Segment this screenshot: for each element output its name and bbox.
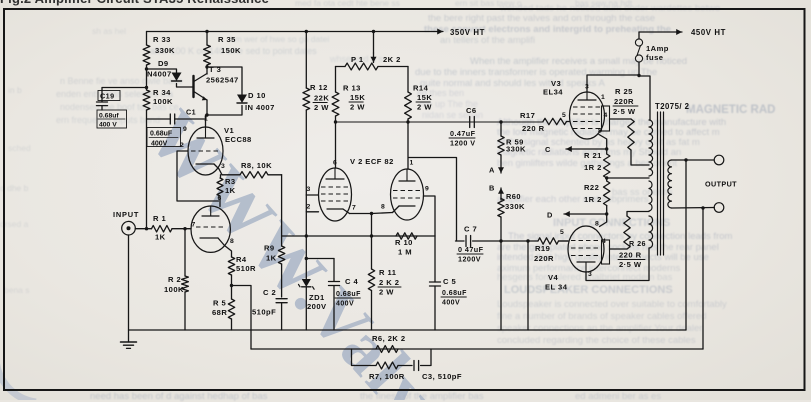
svg-text:C1: C1 — [186, 108, 196, 117]
capacitor C3 — [413, 361, 415, 371]
svg-text:220 R: 220 R — [619, 251, 642, 260]
svg-text:1200V: 1200V — [458, 255, 481, 264]
svg-text:1: 1 — [204, 116, 208, 123]
svg-text:1 M: 1 M — [398, 248, 412, 257]
wire feedback from secondary — [701, 206, 704, 209]
svg-text:R 33: R 33 — [153, 35, 171, 44]
svg-text:2: 2 — [180, 142, 184, 149]
svg-text:C 4: C 4 — [345, 277, 358, 286]
svg-text:330K: 330K — [155, 46, 175, 55]
svg-text:C 2: C 2 — [263, 288, 276, 297]
svg-text:0.68uF: 0.68uF — [336, 291, 361, 298]
zener diode ZD1 — [306, 258, 334, 260]
svg-text:R4: R4 — [236, 255, 247, 264]
svg-text:6: 6 — [333, 160, 337, 167]
node 350V HT arrow — [434, 31, 443, 33]
svg-text:2K 2: 2K 2 — [383, 55, 401, 64]
svg-text:1200 V: 1200 V — [450, 139, 475, 148]
svg-text:EL34: EL34 — [543, 88, 563, 97]
capacitor C2 — [276, 298, 287, 300]
wire V1 grid loop pin2 — [177, 151, 219, 201]
svg-text:EL 34: EL 34 — [545, 283, 568, 292]
svg-text:0 47uF: 0 47uF — [458, 245, 484, 254]
resistor R17 — [543, 118, 567, 124]
svg-text:400V: 400V — [151, 140, 168, 147]
resistor R9 — [281, 175, 283, 246]
svg-text:2 W: 2 W — [379, 288, 394, 297]
capacitor C1 — [147, 118, 171, 120]
wire grid bias rail — [282, 235, 435, 237]
svg-text:3: 3 — [221, 163, 225, 170]
svg-text:330K: 330K — [506, 145, 526, 154]
svg-text:R 5: R 5 — [213, 299, 226, 308]
svg-text:R 2: R 2 — [168, 275, 181, 284]
svg-text:8: 8 — [381, 204, 385, 211]
wire centre tap — [605, 176, 608, 179]
svg-text:220 R: 220 R — [522, 124, 545, 133]
wire anode coupling rail — [336, 121, 544, 123]
wire 350V HT rail — [147, 31, 435, 33]
svg-text:IN 4007: IN 4007 — [245, 103, 275, 112]
wire V4 grid pin5 — [559, 240, 569, 242]
wire R60 to ground bus — [499, 239, 502, 242]
diode D9 — [147, 69, 177, 73]
capacitor C7 — [456, 240, 465, 242]
svg-text:0.68uF: 0.68uF — [150, 131, 173, 138]
resistor R6 — [376, 346, 398, 353]
svg-text:7: 7 — [192, 222, 196, 229]
svg-text:2·5 W: 2·5 W — [619, 260, 642, 269]
svg-text:15K: 15K — [350, 93, 365, 102]
svg-text:1K: 1K — [225, 186, 236, 195]
svg-text:220R: 220R — [534, 254, 554, 263]
svg-text:B: B — [489, 184, 495, 193]
svg-text:C6: C6 — [466, 106, 477, 115]
svg-text:4: 4 — [604, 112, 608, 119]
node C connection arrow — [605, 147, 608, 150]
svg-text:510pF: 510pF — [252, 308, 276, 317]
svg-text:C19: C19 — [100, 91, 115, 100]
svg-text:R14: R14 — [413, 84, 429, 93]
node B connection arrow — [500, 188, 502, 200]
svg-text:400V: 400V — [336, 301, 354, 308]
svg-text:2 W: 2 W — [417, 103, 432, 112]
svg-text:R 21: R 21 — [584, 151, 602, 160]
svg-text:A: A — [489, 166, 495, 175]
resistor R2 — [183, 227, 186, 230]
svg-text:C3, 510pF: C3, 510pF — [422, 372, 462, 381]
svg-text:V1: V1 — [224, 126, 235, 135]
svg-text:0.68uF: 0.68uF — [442, 290, 467, 297]
diode D10 — [207, 67, 242, 95]
svg-text:100K: 100K — [164, 285, 184, 294]
svg-text:0.47uF: 0.47uF — [450, 129, 476, 138]
capacitor C6 — [469, 117, 471, 128]
resistor R1 — [152, 226, 173, 232]
svg-text:200V: 200V — [307, 302, 327, 311]
svg-text:N4007: N4007 — [147, 70, 172, 79]
svg-text:D 10: D 10 — [248, 91, 266, 100]
capacitor C4 — [333, 259, 335, 282]
svg-text:330K: 330K — [505, 202, 525, 211]
svg-text:fuse: fuse — [646, 53, 663, 62]
svg-text:7: 7 — [352, 205, 356, 212]
resistor R19 — [538, 238, 559, 244]
svg-text:450V HT: 450V HT — [691, 28, 726, 37]
tube V1 upper triode ECC88 — [205, 113, 208, 116]
svg-text:V4: V4 — [548, 273, 559, 282]
resistor R33 — [146, 32, 148, 46]
svg-text:400 V: 400 V — [99, 121, 117, 128]
svg-text:22K: 22K — [314, 94, 329, 103]
svg-text:R8, 10K: R8, 10K — [241, 161, 272, 170]
svg-text:150K: 150K — [221, 46, 241, 55]
svg-text:8: 8 — [595, 221, 599, 228]
svg-text:ECC88: ECC88 — [225, 135, 252, 144]
svg-text:15K: 15K — [417, 93, 432, 102]
wire feedback junction to bus — [526, 239, 529, 242]
wire C7 branch from triode anode — [409, 158, 457, 242]
resistor R35 — [206, 32, 208, 46]
wire HT to primary top — [637, 74, 640, 77]
resistor R34 — [143, 90, 150, 110]
resistor R10 — [396, 233, 417, 239]
wire feedback line R6 — [251, 348, 703, 350]
transformer secondary — [668, 160, 672, 208]
svg-text:100K: 100K — [153, 97, 173, 106]
svg-text:8: 8 — [230, 238, 234, 245]
svg-text:1K: 1K — [155, 233, 166, 242]
svg-text:9: 9 — [183, 126, 187, 133]
resistor R22 — [604, 181, 610, 206]
svg-text:D: D — [547, 211, 553, 220]
resistor R7 — [376, 362, 398, 369]
svg-text:T2075/ 2: T2075/ 2 — [655, 102, 690, 111]
svg-text:D9: D9 — [158, 59, 169, 68]
svg-text:R7, 100R: R7, 100R — [369, 372, 405, 381]
svg-text:R60: R60 — [506, 192, 521, 201]
svg-text:R17: R17 — [520, 111, 535, 120]
resistor R21 — [606, 149, 608, 154]
fuse 1Amp — [638, 32, 640, 39]
transistor T3 — [192, 76, 194, 97]
svg-text:3: 3 — [588, 271, 592, 278]
wire secondary to output terminals — [672, 159, 715, 161]
svg-text:2 W: 2 W — [314, 103, 329, 112]
resistor R5 — [228, 299, 234, 319]
svg-text:1: 1 — [601, 94, 605, 101]
wire V3 cathode — [599, 135, 607, 150]
resistor R59 — [499, 120, 502, 123]
svg-text:R22: R22 — [584, 183, 599, 192]
svg-text:C 7: C 7 — [464, 225, 477, 234]
wire V2 cathode junction — [350, 213, 372, 215]
node D connection arrow — [605, 212, 608, 215]
resistor R8 — [222, 174, 240, 176]
wire V4 pin8 to D node — [600, 214, 607, 227]
wire input to R1 — [135, 228, 151, 230]
resistor R12 — [305, 32, 307, 89]
svg-text:R 10: R 10 — [395, 238, 413, 247]
resistor R4 — [225, 246, 232, 258]
capacitor C19 — [102, 88, 147, 102]
svg-text:R9: R9 — [264, 244, 275, 253]
svg-text:INPUT: INPUT — [113, 210, 139, 219]
transformer core — [657, 112, 659, 255]
svg-text:R 35: R 35 — [218, 35, 236, 44]
svg-text:3: 3 — [307, 186, 311, 193]
resistor R26 — [610, 248, 628, 250]
wire secondary ground return — [684, 158, 687, 161]
svg-text:2·5 W: 2·5 W — [613, 107, 636, 116]
svg-text:R 25: R 25 — [615, 87, 633, 96]
svg-text:R 34: R 34 — [153, 88, 171, 97]
svg-text:R3: R3 — [225, 177, 236, 186]
svg-text:R 13: R 13 — [343, 84, 361, 93]
svg-text:2562547: 2562547 — [206, 76, 239, 85]
svg-text:OUTPUT: OUTPUT — [705, 180, 737, 189]
svg-text:2 K 2: 2 K 2 — [379, 278, 399, 287]
svg-text:4: 4 — [602, 238, 606, 245]
svg-text:P 1: P 1 — [351, 55, 364, 64]
wire V2 pentode grid connections — [306, 194, 318, 196]
svg-text:1K: 1K — [266, 254, 277, 263]
svg-text:R 12: R 12 — [310, 83, 328, 92]
svg-text:68R: 68R — [212, 308, 227, 317]
svg-text:6: 6 — [218, 195, 222, 202]
resistor R25 — [610, 118, 632, 120]
svg-text:R 11: R 11 — [379, 268, 397, 277]
svg-text:0.68uf: 0.68uf — [99, 112, 119, 119]
wire R7 C3 parallel loop — [352, 349, 377, 366]
svg-text:9: 9 — [425, 186, 429, 193]
svg-text:1R 2: 1R 2 — [584, 195, 602, 204]
potentiometer P1 — [372, 30, 375, 33]
svg-text:V 2 ECF 82: V 2 ECF 82 — [350, 157, 394, 166]
svg-text:5: 5 — [562, 112, 566, 119]
wire V3 anode to transformer — [587, 75, 639, 92]
node A connection arrow — [500, 155, 502, 173]
resistor R14 — [407, 67, 409, 93]
svg-text:ZD1: ZD1 — [309, 293, 325, 302]
resistor R60 — [500, 197, 502, 200]
svg-text:C 5: C 5 — [443, 277, 456, 286]
wire cathode feedback node — [230, 284, 233, 287]
svg-text:1R 2: 1R 2 — [584, 163, 602, 172]
svg-text:R19: R19 — [535, 244, 550, 253]
resistor R3 — [219, 169, 222, 175]
ground symbol — [128, 235, 130, 342]
svg-text:2: 2 — [307, 204, 311, 211]
svg-text:350V HT: 350V HT — [450, 28, 485, 37]
wire V2 pin9 to C5 branch — [424, 196, 436, 236]
svg-text:C: C — [545, 145, 551, 154]
resistor R13 — [335, 67, 337, 93]
svg-text:400V: 400V — [442, 300, 460, 307]
svg-text:1: 1 — [410, 160, 414, 167]
tube V1 lower triode — [191, 206, 230, 252]
svg-text:R 1: R 1 — [153, 214, 166, 223]
wire V4 anode to transformer — [586, 248, 649, 281]
svg-text:220R: 220R — [614, 97, 634, 106]
tube V2 pentode section — [319, 168, 352, 221]
svg-text:510R: 510R — [236, 264, 256, 273]
svg-text:R 26: R 26 — [629, 239, 646, 248]
svg-text:2 W: 2 W — [350, 103, 365, 112]
svg-text:5: 5 — [560, 229, 564, 236]
svg-text:1Amp: 1Amp — [646, 44, 669, 53]
tube V2 triode section — [391, 169, 424, 220]
resistor R11 — [371, 214, 373, 270]
capacitor C5 — [430, 281, 441, 283]
wire ground bus — [129, 329, 687, 331]
svg-text:R6, 2K 2: R6, 2K 2 — [372, 334, 406, 343]
node 450V HT arrow — [639, 31, 682, 33]
